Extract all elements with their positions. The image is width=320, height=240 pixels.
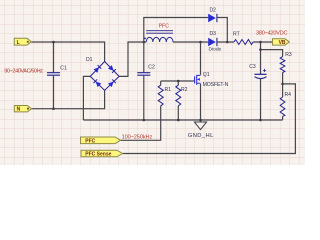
label C2 [148, 64, 155, 70]
wire D3 cathode to RT [217, 41, 234, 43]
label Diode [209, 47, 222, 53]
label C1 [60, 65, 67, 71]
label 100-250kHz annotation [122, 135, 153, 141]
label D3 [210, 31, 217, 37]
node junction divider tap [259, 48, 262, 51]
svg-text:C2: C2 [148, 64, 155, 70]
node junction C3 top [259, 41, 262, 44]
resistor RT [234, 40, 253, 45]
wire branch to R3 top [261, 50, 283, 57]
port N [14, 106, 31, 113]
wire Q1 drain vertical [200, 42, 202, 75]
wire L input from port L to bridge top [31, 42, 104, 62]
svg-text:PFC Sense: PFC Sense [85, 152, 111, 158]
node junction C2 rail [143, 119, 146, 122]
bridge rectifier D1 [90, 62, 119, 91]
port PFC [81, 137, 121, 144]
diode D2 [208, 14, 217, 22]
transistor Q1 MOSFET [195, 75, 201, 85]
svg-text:D1: D1 [86, 57, 93, 63]
port PFC Sense [81, 150, 123, 157]
wire R4 bottom to rail [282, 116, 284, 120]
svg-text:MOSFET-N: MOSFET-N [203, 82, 229, 88]
svg-text:L: L [17, 40, 20, 46]
svg-text:D3: D3 [210, 31, 217, 37]
label Q1 [203, 72, 210, 78]
wire Q1 source to ground rail [200, 84, 202, 122]
wire ground rail [83, 119, 282, 121]
node junction D2 join [226, 41, 229, 44]
wire sense feedback loop to port PFC Sense [123, 84, 296, 154]
node junction C1 bottom [52, 107, 55, 110]
svg-text:100~250kHz: 100~250kHz [122, 135, 153, 141]
label C3 [249, 64, 256, 70]
node junction C1 top [52, 41, 55, 44]
svg-text:90~240VAC/50Hz: 90~240VAC/50Hz [4, 68, 43, 74]
svg-text:C3: C3 [249, 64, 256, 70]
label R3 [285, 52, 292, 58]
port L [14, 38, 31, 46]
label PFC inductor [159, 24, 170, 30]
node junction gate R2 [177, 80, 180, 83]
wire R1 bottom to port PFC [120, 106, 160, 141]
wire gate net [161, 80, 195, 82]
svg-text:PFC: PFC [85, 138, 95, 144]
node junction boost input [143, 41, 146, 44]
label R1 [165, 87, 172, 93]
node junction Q1 drain tap [199, 41, 202, 44]
background sheet [0, 0, 305, 165]
wire R1 top lead [160, 81, 162, 85]
capacitor C2 [137, 73, 150, 76]
svg-text:Diode: Diode [209, 47, 222, 53]
wire inductor to D3 anode [173, 41, 208, 43]
wire bridge negative to ground rail [83, 76, 90, 120]
node junction R2 rail [177, 119, 180, 122]
svg-text:PFC: PFC [159, 24, 170, 30]
svg-text:C1: C1 [60, 65, 67, 71]
svg-text:380~420VDC: 380~420VDC [256, 30, 287, 36]
label MOSFET-N [203, 82, 229, 88]
wire RT to port VB [253, 41, 273, 43]
resistor R1 [158, 85, 163, 106]
svg-text:N: N [17, 107, 21, 113]
label R2 [181, 87, 188, 93]
port VB [273, 39, 290, 46]
resistor R3 [280, 57, 285, 73]
wire R2 top lead [177, 81, 179, 85]
svg-text:R1: R1 [165, 87, 172, 93]
resistor R4 [280, 97, 285, 116]
svg-text:R3: R3 [285, 52, 292, 58]
ground GND_HL [194, 122, 206, 130]
label D1 [86, 57, 93, 63]
svg-text:R2: R2 [181, 87, 188, 93]
wire top rail to D2 anode [144, 18, 208, 43]
node junction C3 rail [259, 119, 262, 122]
label RT [233, 32, 240, 38]
label R4 [285, 92, 292, 98]
wire bridge positive up to boost node [119, 42, 146, 76]
svg-text:Q1: Q1 [203, 72, 210, 78]
node junction source rail [199, 119, 202, 122]
wire D2 cathode down to output net [217, 18, 227, 43]
wire R2 bottom lead [177, 106, 179, 120]
capacitor C3 polarized [255, 69, 267, 79]
svg-text:RT: RT [233, 32, 240, 38]
wire N input from port N to bridge bottom [32, 90, 105, 108]
label D2 [210, 7, 217, 13]
resistor R2 [176, 85, 181, 106]
label 90-240VAC input annotation [4, 68, 43, 74]
diode D3 [208, 38, 217, 46]
node junction R3 R4 [281, 83, 284, 86]
wire C3 branch vertical [260, 42, 262, 120]
wire C1 branch vertical [53, 42, 55, 109]
wire C2 branch vertical [143, 42, 145, 120]
wire R3 bottom to R4 top [282, 73, 284, 98]
svg-text:VB: VB [279, 40, 286, 46]
label 380-420VDC annotation [256, 30, 287, 36]
label GND_HL [188, 133, 214, 139]
inductor PFC [144, 31, 173, 42]
svg-text:GND_HL: GND_HL [188, 133, 214, 139]
svg-text:R4: R4 [285, 92, 292, 98]
svg-text:D2: D2 [210, 7, 217, 13]
capacitor C1 [47, 73, 60, 76]
